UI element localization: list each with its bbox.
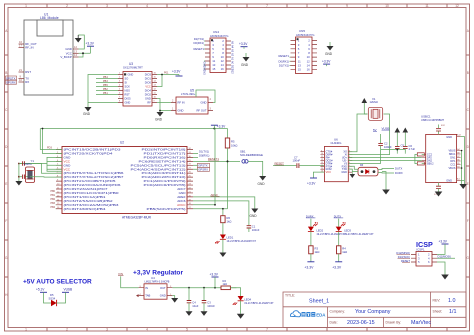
ground SB1 [258, 176, 267, 186]
wire R3 to power [310, 254, 312, 262]
USBC1 GND top pin [446, 134, 461, 139]
svg-text:LED3: LED3 [344, 229, 351, 233]
section title ICSP [416, 240, 433, 249]
svg-text:MarVtec: MarVtec [411, 320, 431, 326]
svg-text:RST: RST [125, 93, 131, 97]
svg-text:L86_Module: L86_Module [40, 16, 59, 20]
wire xtal to PB6 PB7 [30, 164, 62, 178]
wire ADC6 to C1 [193, 201, 249, 226]
LED LED2 [308, 222, 346, 236]
ground CN5 [325, 42, 334, 56]
svg-text:1kΩ: 1kΩ [315, 250, 320, 254]
svg-text:12MHz: 12MHz [370, 100, 379, 104]
wire ICSP MOSI [437, 254, 455, 258]
capacitor C3 [202, 288, 216, 312]
svg-text:5: 5 [186, 328, 188, 332]
svg-text:LED2: LED2 [316, 229, 323, 233]
svg-text:PD3: PD3 [47, 146, 52, 149]
svg-text:13: 13 [321, 162, 323, 164]
ground ICSP [441, 275, 449, 280]
section title +3,3V Regulator [133, 270, 183, 277]
svg-text:PB2: PB2 [103, 88, 108, 91]
svg-text:DP1: DP1 [450, 159, 456, 163]
power +3.3V rail port [211, 125, 226, 129]
svg-text:1kΩ: 1kΩ [342, 250, 347, 254]
svg-text:P01: P01 [164, 72, 169, 75]
svg-text:SBU2: SBU2 [427, 161, 434, 165]
svg-text:10kΩ: 10kΩ [231, 143, 237, 147]
wire R5 top [227, 129, 229, 139]
wire U4 GND to ground [172, 296, 174, 298]
svg-text:D5: D5 [50, 293, 54, 297]
svg-text:SO: SO [125, 77, 129, 81]
net label VIN [118, 272, 139, 288]
svg-text:6: 6 [226, 328, 228, 332]
svg-text:D0(RX1): D0(RX1) [194, 41, 205, 45]
svg-text:19-217/BHC-ZL1M2RY/3T: 19-217/BHC-ZL1M2RY/3T [344, 233, 374, 236]
svg-text:+3.3V: +3.3V [322, 60, 331, 64]
svg-text:LM1117MPX-3.3/NCPB: LM1117MPX-3.3/NCPB [145, 281, 170, 284]
diode pack D2 [358, 164, 378, 176]
svg-text:GND: GND [446, 179, 452, 183]
U2 right row2 wire D0(RX) [193, 154, 210, 158]
svg-text:PB4: PB4 [50, 206, 55, 209]
wire USB DP DN to U6 [348, 158, 421, 161]
U6 pin names [321, 150, 350, 174]
svg-text:GPSRX: GPSRX [6, 81, 16, 85]
svg-text:RESET1: RESET1 [194, 47, 205, 51]
svg-text:GND: GND [83, 112, 91, 116]
svg-text:DIO3: DIO3 [145, 73, 152, 77]
U3 pin numbers [119, 73, 157, 103]
svg-text:(PCINT4/MISO)PB4: (PCINT4/MISO)PB4 [64, 207, 106, 211]
wire LED4 to GND [240, 301, 242, 314]
wire U6 RXD TXD to diode pack [348, 166, 358, 171]
svg-text:CH340G: CH340G [331, 141, 342, 145]
svg-text:GND: GND [178, 109, 184, 113]
capacitor shield bottom [434, 183, 441, 196]
ground U3 right [155, 112, 164, 122]
svg-text:OUT: OUT [160, 286, 166, 290]
svg-text:SX1276IMLTRT: SX1276IMLTRT [123, 66, 143, 70]
wire AREF to GND [193, 193, 255, 209]
svg-text:+5V AUTO SELECTOR: +5V AUTO SELECTOR [23, 279, 92, 286]
svg-text:9: 9 [321, 150, 322, 152]
wire SB1 to GND [248, 161, 263, 176]
svg-text:VCC: VCC [326, 170, 332, 174]
svg-text:PB1: PB1 [50, 194, 55, 197]
svg-text:100nF: 100nF [207, 304, 215, 308]
svg-text:PB3: PB3 [103, 80, 108, 83]
capacitor C5 xtal [19, 161, 30, 165]
CN4 left net labels [194, 37, 205, 51]
svg-text:GND: GND [446, 135, 452, 139]
svg-text:E: E [5, 182, 7, 186]
svg-text:+5.1V: +5.1V [36, 288, 45, 292]
svg-text:VBUS: VBUS [448, 166, 455, 170]
net label DURX [306, 214, 316, 226]
svg-text:Your Company: Your Company [355, 309, 391, 315]
svg-text:+3.3V: +3.3V [239, 42, 248, 46]
net label GPSTX [6, 76, 17, 80]
U1 pin RF_OUT 16 [19, 40, 37, 46]
USBC1 left pins [422, 155, 426, 164]
power +3.3V U3 [172, 69, 183, 76]
svg-text:TITLE:: TITLE: [285, 294, 295, 298]
wire U3 GND pins [88, 75, 118, 108]
svg-text:PB0: PB0 [50, 190, 55, 193]
resistor R4 [337, 246, 348, 254]
wire +3.3V rail [40, 128, 227, 130]
U2 right pin names [131, 148, 187, 211]
svg-text:+3.3V: +3.3V [210, 273, 219, 277]
EasyEDA logo [290, 311, 326, 318]
svg-text:GND: GND [128, 73, 134, 77]
svg-text:DURX: DURX [395, 171, 403, 175]
wire LED1 to GND [222, 239, 224, 252]
svg-text:SI: SI [125, 81, 128, 85]
svg-text:RF IN: RF IN [178, 101, 185, 105]
svg-text:15: 15 [298, 68, 302, 72]
LED LED4 [233, 296, 275, 305]
U1 pin TX [19, 75, 29, 81]
svg-text:2: 2 [66, 328, 68, 332]
module U3 SX1276 [123, 62, 152, 106]
svg-text:SCK: SCK [125, 85, 131, 89]
net label PD3 [47, 146, 52, 149]
svg-text:16: 16 [221, 67, 225, 71]
svg-text:2: 2 [66, 4, 68, 8]
svg-text:5: 5 [186, 4, 188, 8]
power +3.3V U6 [307, 172, 324, 185]
svg-text:GND: GND [258, 182, 266, 186]
ground shield cap [435, 192, 443, 197]
wire U4 OUT rail [172, 287, 236, 289]
svg-text:Drawn By:: Drawn By: [386, 321, 402, 325]
ground USBC1 [459, 184, 467, 189]
svg-text:14: 14 [321, 165, 323, 167]
wire LED2 to R3 [310, 231, 312, 245]
svg-text:LED1: LED1 [227, 235, 234, 239]
power VUSB port [60, 288, 73, 303]
svg-text:(PCINT20/XCK/T0)PD4: (PCINT20/XCK/T0)PD4 [64, 151, 113, 155]
power +3.3V below R4 [332, 262, 342, 270]
U1 pin RX [19, 78, 30, 84]
power +3.3V reg out [210, 273, 219, 288]
svg-text:GND: GND [145, 97, 151, 101]
svg-text:EDA: EDA [316, 313, 326, 318]
svg-text:GND: GND [125, 101, 131, 105]
svg-text:19-217/BHC-ZL1M2RY/3T: 19-217/BHC-ZL1M2RY/3T [227, 240, 257, 243]
svg-text:19-217/BHC-ZL1M2RY/3T: 19-217/BHC-ZL1M2RY/3T [316, 233, 346, 236]
svg-text:CC1: CC1 [450, 163, 456, 167]
wire DTR to gnd [382, 172, 386, 190]
power +3.3V ICSP [437, 240, 449, 255]
svg-text:RESET1: RESET1 [208, 157, 219, 161]
svg-text:9: 9 [346, 4, 348, 8]
capacitor shield top [436, 125, 446, 135]
power +3.3V U1 [86, 41, 95, 53]
CN5 left wires [290, 57, 291, 65]
svg-text:100nF: 100nF [384, 145, 392, 149]
svg-text:RF: RF [147, 101, 151, 105]
wire R2 to LED4 [230, 288, 240, 296]
svg-text:F: F [467, 219, 469, 223]
ground C3 [201, 311, 208, 316]
connector ICSP1 [411, 247, 437, 266]
connector USBC1 USB type-C [421, 115, 457, 183]
title block [283, 292, 466, 328]
ground LED4 [237, 314, 245, 319]
svg-text:U2: U2 [120, 141, 124, 145]
svg-text:ATMEGA328P-MUR: ATMEGA328P-MUR [122, 216, 152, 220]
connector CN4 AXK6F34347YG [210, 30, 229, 72]
svg-text:RX: RX [25, 80, 29, 84]
U2 pin numbers [57, 148, 192, 209]
svg-text:R5: R5 [231, 140, 235, 144]
module U5 LTCN-490+ [176, 88, 208, 114]
ground crystal [15, 179, 22, 186]
CN4 left wires [204, 41, 205, 69]
svg-text:10: 10 [321, 153, 323, 155]
capacitor C2 [378, 134, 392, 150]
power +5.1V port [36, 288, 51, 303]
wire V3 to C2 [348, 150, 380, 164]
svg-text:11: 11 [425, 4, 429, 8]
ground U4 [171, 298, 178, 303]
svg-text:10: 10 [385, 4, 389, 8]
svg-text:10uF: 10uF [192, 304, 198, 308]
net label P01 [164, 72, 169, 75]
svg-text:+3.3V: +3.3V [304, 266, 314, 270]
svg-text:E: E [467, 182, 469, 186]
power flag VUSB [395, 128, 401, 147]
resistor R6 [221, 216, 232, 224]
wire PD4 from rail [42, 128, 62, 154]
svg-text:19-217/BHC-ZL1M2RY/3T: 19-217/BHC-ZL1M2RY/3T [244, 302, 274, 305]
svg-text:ICSP1: ICSP1 [417, 247, 426, 251]
svg-text:IN: IN [145, 286, 148, 290]
IC U2 ATMEGA328P-MUR [62, 141, 187, 220]
svg-text:DIO4: DIO4 [145, 89, 152, 93]
svg-text:12: 12 [455, 4, 459, 8]
svg-text:+3.3V: +3.3V [217, 125, 226, 129]
svg-text:RF_IN: RF_IN [25, 46, 33, 50]
svg-text:D1(TX1): D1(TX1) [199, 150, 209, 154]
svg-text:Company:: Company: [330, 310, 346, 314]
svg-text:+3.3V: +3.3V [307, 182, 316, 186]
svg-text:11: 11 [321, 156, 323, 158]
svg-text:R3: R3 [315, 246, 319, 250]
ground AREF [250, 209, 259, 219]
svg-text:GPSRX: GPSRX [198, 168, 208, 172]
svg-text:1: 1 [25, 4, 27, 8]
module U1 L86 GPS [24, 13, 73, 96]
svg-text:3: 3 [106, 328, 108, 332]
svg-text:PB1: PB1 [103, 92, 108, 95]
ICSP left labels [396, 251, 410, 263]
U1 pin GND 12 [65, 45, 78, 51]
net label RESET1 [208, 157, 219, 161]
ground C4 [186, 311, 193, 316]
U1 pin V_BCKP 14 [60, 53, 78, 59]
solderbridge SB1 [240, 150, 263, 163]
svg-text:GND: GND [203, 70, 206, 76]
svg-text:D11(MOSI): D11(MOSI) [438, 254, 451, 258]
net label VUSB [382, 127, 390, 131]
wire caps to gnd rail [381, 149, 406, 154]
svg-text:1kΩ: 1kΩ [227, 219, 232, 223]
svg-text:1.0: 1.0 [448, 298, 456, 304]
svg-text:Date:: Date: [330, 321, 338, 325]
IC U6 CH340G [324, 137, 348, 181]
svg-text:+3.3V: +3.3V [86, 41, 95, 45]
svg-text:U4: U4 [151, 276, 155, 280]
svg-text:+3.3V: +3.3V [332, 266, 342, 270]
net label GPSTX boxed [193, 163, 210, 167]
svg-text:DIO1: DIO1 [145, 77, 152, 81]
svg-text:SS34: SS34 [49, 297, 56, 301]
CN4 right net labels [231, 41, 234, 45]
svg-text:NSS: NSS [125, 89, 131, 93]
svg-text:+3,3V Regulator: +3,3V Regulator [133, 270, 183, 277]
USBC1 right pins [457, 151, 461, 169]
svg-text:7: 7 [266, 328, 268, 332]
capacitor C5 [395, 143, 404, 152]
wire U2 GND VCC rows [47, 157, 62, 171]
U3 left pins [118, 75, 123, 103]
svg-text:100nF: 100nF [252, 228, 260, 232]
svg-text:D12: D12 [231, 69, 234, 74]
CN5 left net labels [279, 54, 290, 67]
power flag VCC X1 [362, 98, 368, 114]
svg-text:B: B [467, 71, 469, 75]
svg-text:GND: GND [250, 214, 258, 218]
wire LED3 to R4 [338, 231, 340, 245]
svg-text:PB5: PB5 [103, 84, 108, 87]
ground U1 [75, 35, 82, 43]
svg-text:1: 1 [25, 328, 27, 332]
svg-text:AXK6F34347YG: AXK6F34347YG [210, 35, 229, 38]
power +3.3V CN5 [322, 60, 331, 67]
svg-text:RST: RST [25, 70, 31, 74]
svg-text:+3.3V: +3.3V [172, 69, 181, 73]
U6 pin stubs [320, 152, 352, 172]
net labels PB0-PB4 left of U2 [50, 190, 55, 209]
svg-text:SOLDERBRIDGE: SOLDERBRIDGE [240, 153, 263, 157]
wire R4 to power [338, 254, 340, 262]
svg-text:7: 7 [266, 4, 268, 8]
net label DUTX [395, 167, 403, 171]
wire GND top rail [461, 137, 465, 185]
svg-text:PB5(SCK/PCINT5): PB5(SCK/PCINT5) [147, 207, 186, 211]
svg-text:C3: C3 [207, 300, 211, 304]
svg-text:PB4: PB4 [103, 76, 108, 79]
crystal X1 [368, 97, 382, 121]
svg-text:B: B [5, 71, 7, 75]
svg-text:GND: GND [325, 52, 333, 56]
wire U3 RF to U5 [157, 102, 171, 104]
net label DUTX [334, 214, 344, 226]
power +3.3V below R3 [304, 262, 314, 270]
resistor R1 cc pulldown [417, 153, 424, 156]
section title +5V AUTO SELECTOR [23, 279, 92, 286]
wire AVCC to R6 [193, 129, 228, 216]
wire crystal rail [18, 163, 47, 179]
svg-text:3: 3 [106, 4, 108, 8]
power flag 5V [403, 128, 409, 147]
svg-text:DN1: DN1 [450, 156, 456, 160]
resistor R2 cc pulldown [417, 162, 424, 165]
svg-text:Sheet_1: Sheet_1 [309, 299, 329, 305]
svg-text:REV:: REV: [433, 299, 441, 303]
svg-text:DIO0: DIO0 [145, 81, 152, 85]
svg-text:CN4: CN4 [213, 30, 219, 34]
U2 left pin names [64, 148, 124, 211]
svg-text:Sheet:: Sheet: [433, 310, 443, 314]
svg-text:4.7uF: 4.7uF [409, 147, 416, 151]
svg-text:1: 1 [349, 171, 350, 173]
svg-text:16: 16 [307, 68, 311, 72]
wire diode pack to labels [378, 169, 394, 174]
net labels U3 SPI [103, 76, 108, 95]
wire X1 to U6 XO XI [348, 114, 389, 155]
svg-text:LED4: LED4 [244, 298, 251, 302]
svg-text:AXK5F34347YG: AXK5F34347YG [296, 34, 315, 37]
svg-text:V_BCKP: V_BCKP [60, 55, 71, 59]
svg-text:USB3.1C16PF5BMT: USB3.1C16PF5BMT [421, 119, 445, 122]
wire R6 to LED1 [222, 223, 224, 235]
USBC1 GND bottom pin [446, 178, 460, 183]
svg-text:15: 15 [212, 67, 216, 71]
svg-text:GND: GND [241, 63, 249, 67]
svg-text:F: F [5, 219, 7, 223]
svg-text:100nF: 100nF [293, 159, 301, 163]
svg-text:DUTX: DUTX [395, 167, 403, 171]
capacitor C4 [187, 288, 199, 312]
wire U3 DIO3 to +3.3V [157, 74, 179, 87]
svg-text:D1(TX1): D1(TX1) [279, 63, 289, 67]
svg-text:VCC: VCC [145, 85, 151, 89]
ground U3 [83, 107, 92, 116]
svg-text:D0(RX1): D0(RX1) [279, 59, 290, 63]
wire ICSP GND [437, 262, 445, 275]
svg-text:CN5: CN5 [299, 29, 305, 33]
svg-text:4: 4 [146, 4, 148, 8]
LED LED3 [336, 222, 374, 236]
resistor R2 power led [221, 279, 230, 290]
diode D5 SS34 [49, 293, 60, 306]
wire U5 ANT loop [196, 90, 215, 103]
svg-text:RF OUT: RF OUT [196, 109, 206, 113]
svg-text:TAB: TAB [145, 294, 150, 298]
svg-text:LTCN-490+: LTCN-490+ [181, 92, 196, 96]
svg-text:PB2: PB2 [50, 198, 55, 201]
U1 pin RST 21 [19, 68, 32, 74]
wire U1 GND loop [78, 35, 84, 49]
capacitor C1 [247, 224, 260, 232]
LED LED1 [215, 235, 256, 244]
svg-text:8: 8 [306, 4, 308, 8]
connector CN5 AXK5F34347YG [296, 29, 315, 73]
ground mid [382, 190, 390, 195]
svg-text:6: 6 [226, 4, 228, 8]
wires PB nets [55, 193, 58, 209]
svg-text:VUSB: VUSB [64, 288, 73, 292]
wire C7 to U6 [300, 165, 325, 167]
wire CC pulldowns left [415, 155, 417, 164]
U1 pin RF_IN 17 [19, 44, 34, 50]
